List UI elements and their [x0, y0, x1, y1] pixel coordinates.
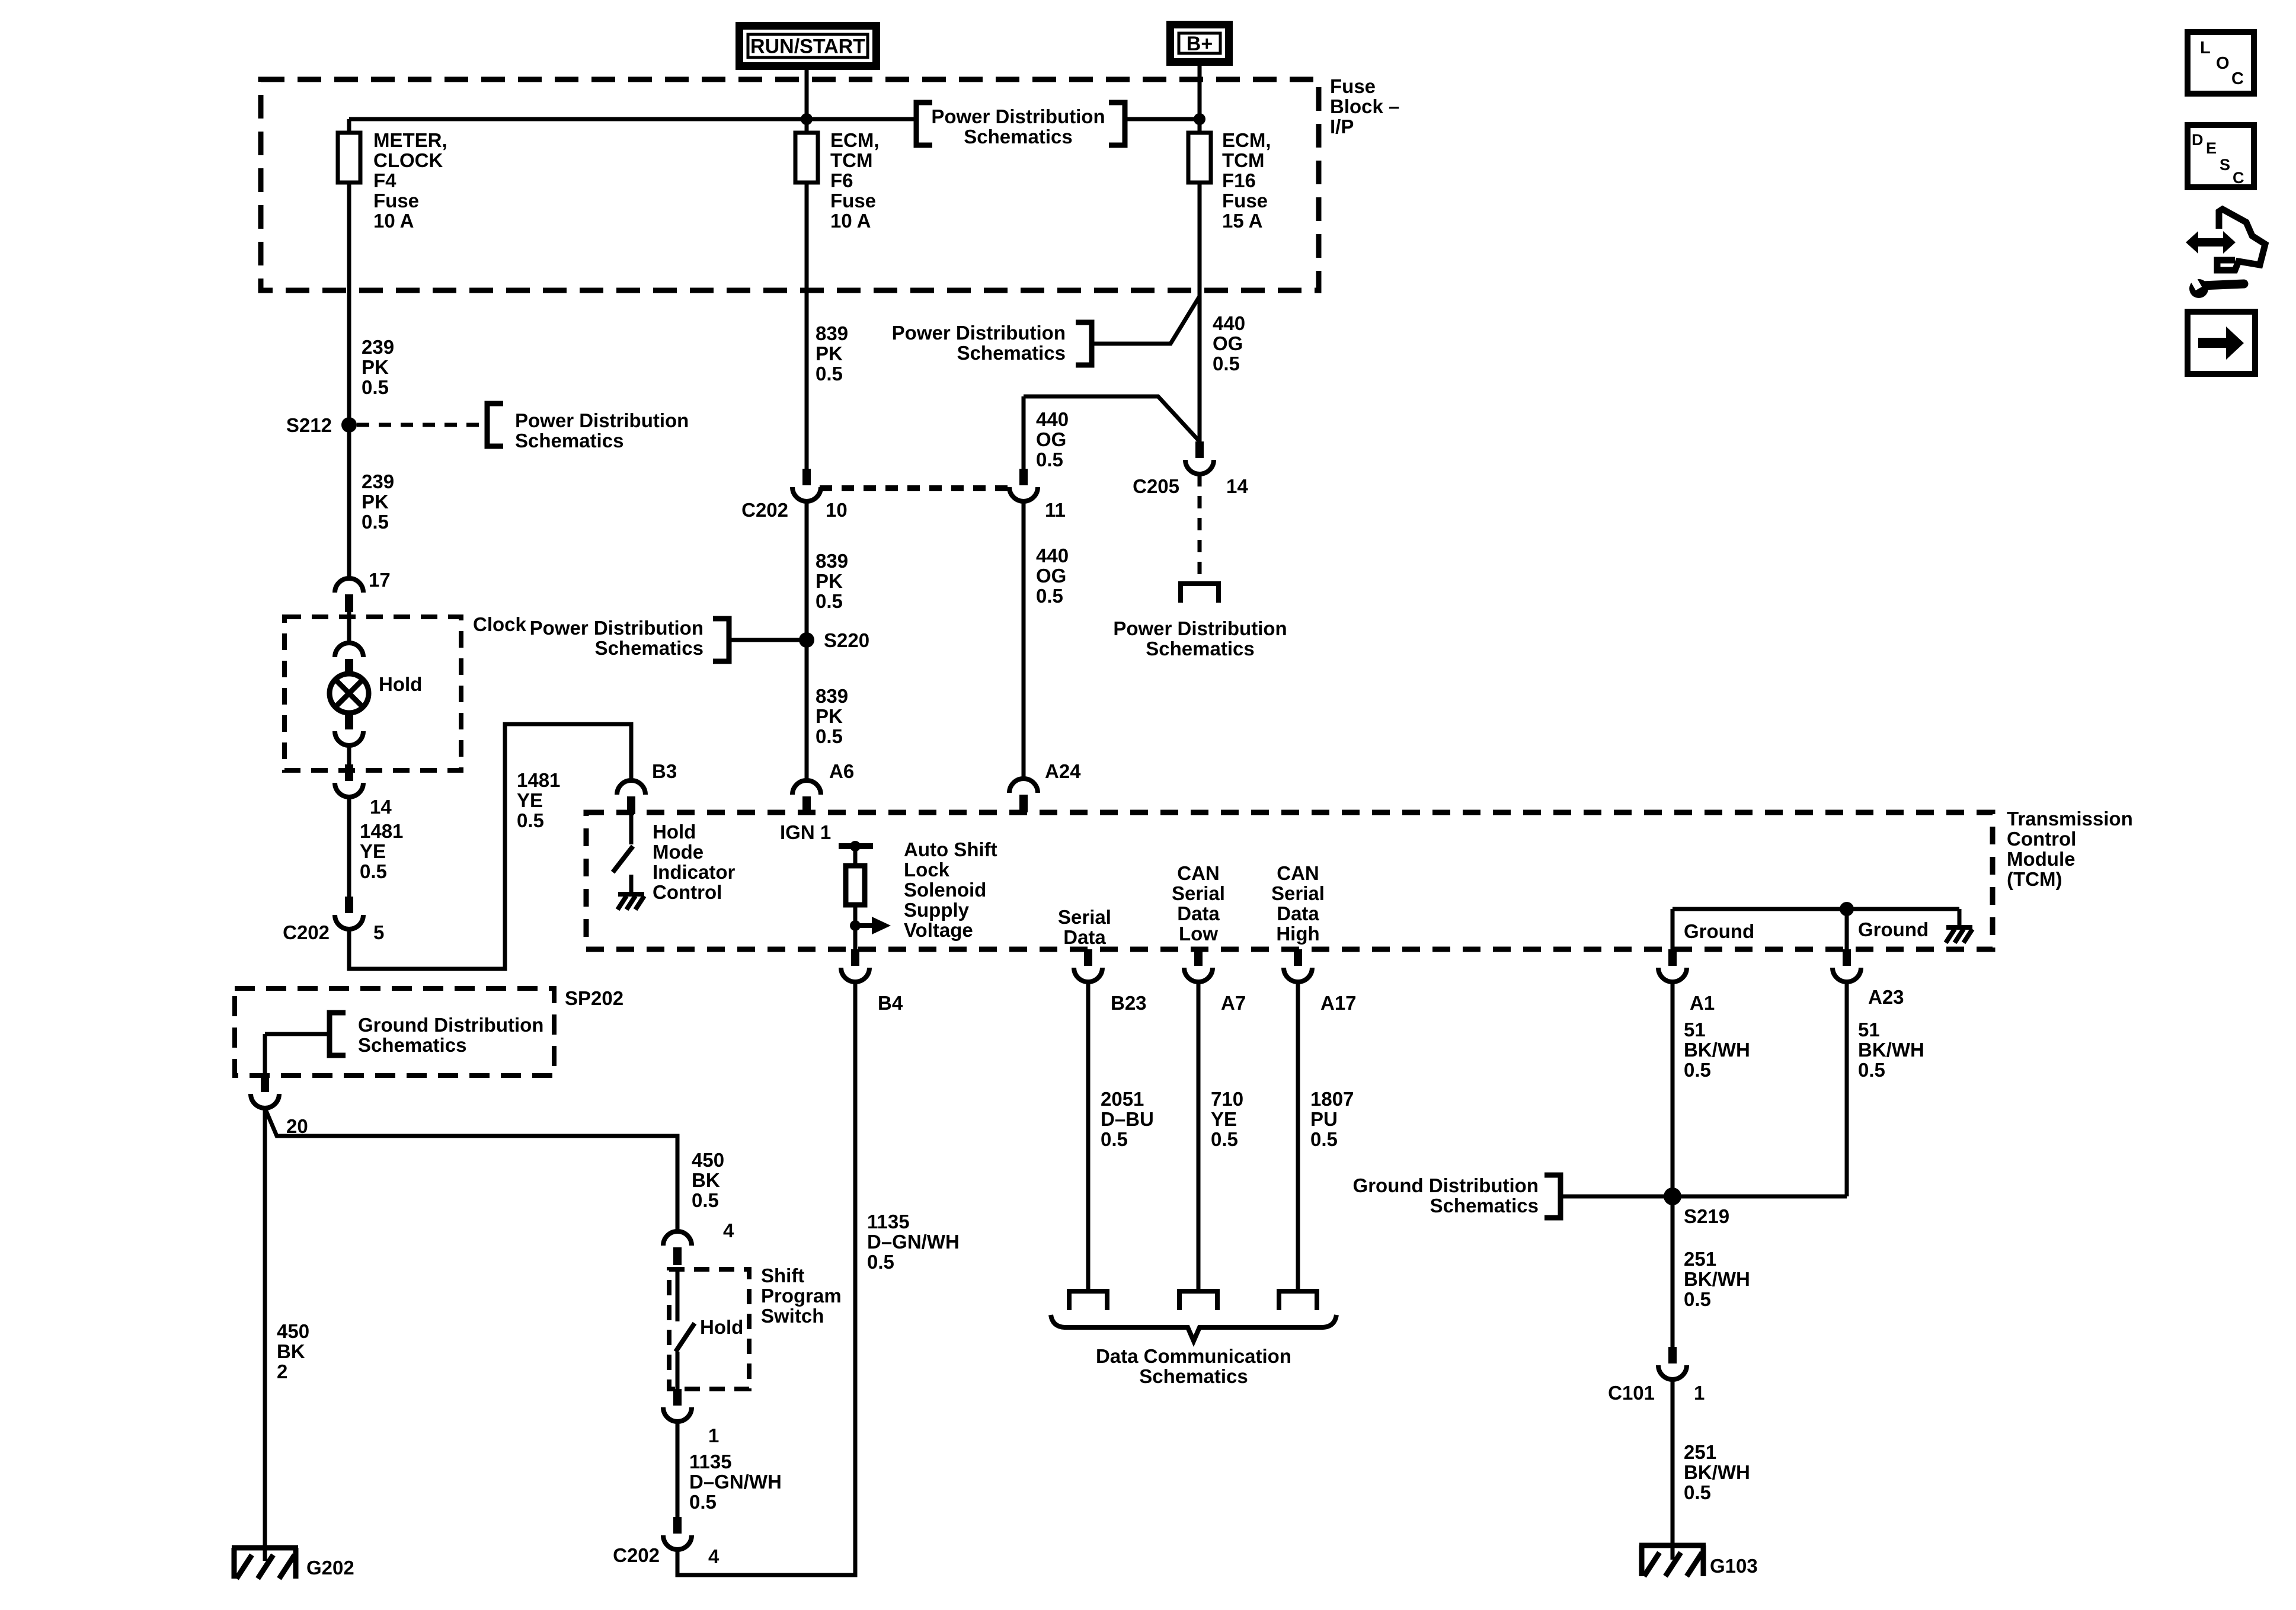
svg-text:0.5: 0.5	[517, 809, 544, 831]
connector pin 14 clock output	[335, 764, 363, 797]
wire 2051 D-BU B23 to data comm	[1086, 982, 1091, 1291]
svg-text:51: 51	[1684, 1019, 1706, 1041]
svg-text:(TCM): (TCM)	[2007, 868, 2062, 890]
wire switch to ground	[629, 875, 634, 892]
connector pin A24 TCM	[1009, 779, 1038, 812]
svg-text:Control: Control	[653, 881, 722, 903]
label pin B4	[878, 992, 903, 1014]
label C202 (pin 4)	[613, 1544, 660, 1566]
label Ground (A23)	[1858, 918, 1929, 940]
wire switch lower contact	[676, 1352, 680, 1389]
svg-text:1: 1	[708, 1425, 719, 1446]
label CAN Serial Data High	[1271, 862, 1325, 945]
label wire 239 PK 0.5 (lower)	[362, 470, 394, 533]
wire internal ground to A23	[1845, 909, 1849, 949]
label Power Distribution Schematics at S212	[515, 409, 689, 452]
svg-text:SP202: SP202	[565, 987, 623, 1009]
svg-text:Schematics: Schematics	[1430, 1195, 1539, 1217]
svg-text:Power Distribution: Power Distribution	[892, 322, 1066, 344]
svg-text:0.5: 0.5	[360, 860, 387, 882]
label pin 4 C202	[708, 1545, 720, 1567]
label pin A6	[829, 760, 854, 782]
svg-text:Solenoid: Solenoid	[904, 879, 986, 901]
svg-text:Mode: Mode	[653, 841, 703, 863]
svg-text:PU: PU	[1310, 1108, 1338, 1130]
svg-text:Fuse: Fuse	[1222, 190, 1268, 212]
connector pin B23 TCM	[1074, 949, 1102, 982]
svg-text:IGN 1: IGN 1	[780, 821, 831, 843]
svg-text:Auto Shift: Auto Shift	[904, 838, 997, 860]
bracket left of Power Distribution Schematics (top)	[916, 103, 932, 145]
svg-text:2: 2	[277, 1361, 287, 1382]
fuse F16 ECM TCM 15A	[1188, 133, 1211, 183]
wire 440 OG F16 down to C205	[1198, 183, 1202, 441]
svg-text:Schematics: Schematics	[1146, 638, 1254, 660]
label Power Distribution Schematics (top)	[931, 105, 1105, 148]
svg-text:A17: A17	[1320, 992, 1357, 1014]
ground internal TCM hold mode	[618, 894, 644, 910]
wire 440 OG down to C202-11	[1022, 396, 1026, 469]
node junction B+ bus	[1194, 113, 1205, 125]
svg-text:0.5: 0.5	[816, 725, 843, 747]
svg-text:14: 14	[1226, 475, 1248, 497]
label C202 (pin 5)	[283, 921, 330, 943]
label pin 17	[369, 569, 391, 591]
label pin 14	[370, 796, 392, 818]
svg-text:14: 14	[370, 796, 392, 818]
svg-text:Hold: Hold	[700, 1316, 743, 1338]
svg-text:0.5: 0.5	[1310, 1128, 1338, 1150]
svg-text:Data: Data	[1177, 902, 1220, 924]
label SP202	[565, 987, 623, 1009]
connector pin 1 shift program switch	[663, 1389, 692, 1422]
wire TCM internal ground bus	[1673, 907, 1959, 911]
wire 51 BK/WH A1 to S219	[1671, 982, 1675, 1347]
svg-text:2051: 2051	[1101, 1088, 1144, 1110]
wire resistor to B4	[853, 905, 858, 949]
svg-text:Power Distribution: Power Distribution	[515, 409, 689, 431]
label Data Communication Schematics	[1096, 1345, 1291, 1387]
label Fuse Block - I/P	[1330, 75, 1399, 137]
svg-text:4: 4	[723, 1219, 734, 1241]
label S219	[1684, 1205, 1729, 1227]
svg-text:0.5: 0.5	[1101, 1128, 1128, 1150]
svg-text:D–GN/WH: D–GN/WH	[867, 1231, 960, 1253]
receptacle B23 data communication	[1069, 1291, 1107, 1310]
svg-text:Indicator: Indicator	[653, 861, 736, 883]
wire RUN/START to fuse F6	[805, 70, 809, 133]
svg-text:OG: OG	[1036, 565, 1066, 587]
svg-text:A7: A7	[1221, 992, 1246, 1014]
label Shift Program Switch	[761, 1265, 842, 1327]
lamp terminal bottom (clock)	[335, 713, 363, 745]
svg-text:Schematics: Schematics	[358, 1034, 466, 1056]
svg-text:Ground: Ground	[1684, 920, 1754, 942]
svg-text:Schematics: Schematics	[964, 126, 1072, 148]
svg-text:PK: PK	[816, 343, 843, 364]
svg-text:CAN: CAN	[1277, 862, 1319, 884]
svg-text:0.5: 0.5	[362, 511, 389, 533]
wire bus F4 to bracket	[349, 117, 916, 121]
svg-text:1135: 1135	[867, 1211, 910, 1233]
svg-text:0.5: 0.5	[1858, 1059, 1885, 1081]
ground G202	[232, 1548, 298, 1579]
svg-text:15 A: 15 A	[1222, 210, 1262, 232]
ground G103	[1639, 1545, 1706, 1576]
bracket Power Distribution Schematics at S220	[713, 619, 729, 661]
wire IGN1 to resistor	[853, 846, 858, 866]
svg-text:440: 440	[1036, 545, 1069, 566]
power flag RUN/START	[740, 26, 877, 66]
connector pin 17 clock	[335, 578, 363, 612]
svg-text:11: 11	[1045, 499, 1066, 521]
wire 239 PK from F4 to connector 17	[347, 183, 351, 578]
icon wrench	[2188, 269, 2244, 298]
svg-text:YE: YE	[517, 789, 543, 811]
icon box DESC	[2188, 125, 2254, 187]
receptacle A17 data communication	[1279, 1291, 1317, 1310]
svg-text:0.5: 0.5	[1684, 1481, 1711, 1503]
wire B+ flag down to fuse F16	[1198, 66, 1202, 133]
svg-text:0.5: 0.5	[1211, 1128, 1238, 1150]
node S212 splice	[341, 417, 357, 433]
svg-text:ECM,: ECM,	[830, 129, 880, 151]
fuse F6 ECM TCM 10A	[795, 133, 818, 183]
wire IGN1 internal bar	[839, 843, 873, 849]
svg-text:High: High	[1276, 923, 1319, 945]
wire A23 branch to S219	[1673, 1195, 1847, 1199]
svg-text:OG: OG	[1213, 332, 1243, 354]
connector C101 pin 1	[1658, 1347, 1687, 1379]
wire bracket to S219	[1560, 1195, 1673, 1199]
label C205	[1133, 475, 1179, 497]
label C202 (pin 10)	[741, 499, 788, 521]
svg-text:Ground: Ground	[1858, 918, 1929, 940]
connector pin A1 TCM	[1658, 949, 1687, 982]
label wire 450 BK 2	[277, 1320, 309, 1382]
wire SP202 bracket	[265, 1032, 330, 1036]
svg-text:0.5: 0.5	[1213, 353, 1240, 375]
label pin 1 C101	[1694, 1382, 1705, 1404]
label Power Distribution Schematics at S220	[530, 617, 703, 659]
svg-text:B4: B4	[878, 992, 903, 1014]
svg-text:PK: PK	[362, 356, 389, 378]
wire bracket diagonal to 440 OG	[1092, 296, 1200, 344]
svg-text:Schematics: Schematics	[1139, 1365, 1248, 1387]
wire into clock lamp	[347, 612, 351, 643]
svg-text:G103: G103	[1710, 1555, 1758, 1577]
connector pin A6 TCM	[792, 780, 821, 814]
node internal ground junction	[1840, 902, 1854, 916]
label wire 51 BK/WH 0.5 (A23)	[1858, 1019, 1924, 1081]
svg-text:Data: Data	[1277, 902, 1319, 924]
svg-text:0.5: 0.5	[1036, 585, 1063, 607]
lamp terminal top (clock)	[335, 643, 363, 676]
label pin B23	[1111, 992, 1147, 1014]
svg-text:Lock: Lock	[904, 859, 950, 881]
svg-text:Fuse: Fuse	[830, 190, 876, 212]
label pin A17	[1320, 992, 1357, 1014]
svg-text:G202: G202	[306, 1557, 354, 1579]
svg-text:Transmission: Transmission	[2007, 808, 2133, 830]
label Power Distribution Schematics (below C205)	[1113, 617, 1287, 660]
label IGN 1	[780, 821, 831, 843]
wire 440 OG C202-11 to TCM A24	[1022, 501, 1026, 779]
SP202 dashed box	[235, 988, 554, 1076]
svg-text:710: 710	[1211, 1088, 1243, 1110]
svg-text:C202: C202	[283, 921, 330, 943]
svg-text:4: 4	[708, 1545, 720, 1567]
label pin A7	[1221, 992, 1246, 1014]
node junction bus/RUN-START	[801, 113, 813, 125]
svg-text:C202: C202	[613, 1544, 660, 1566]
label wire 440 OG 0.5 (branch upper)	[1036, 408, 1069, 470]
power flag B+	[1171, 25, 1229, 62]
svg-text:Low: Low	[1179, 923, 1218, 945]
wire 450 BK 0.5 branch to shift switch	[265, 1108, 677, 1231]
bracket Ground Distribution Schematics at S219	[1544, 1175, 1560, 1218]
wire 1135 D-GN/WH C202-4 to B4	[677, 982, 855, 1575]
node S220 splice	[799, 632, 814, 648]
label pin A24	[1045, 760, 1081, 782]
label fuse F16	[1222, 129, 1271, 232]
svg-text:Switch: Switch	[761, 1305, 824, 1327]
svg-text:D: D	[2192, 131, 2204, 149]
label Hold Mode Indicator Control	[653, 821, 736, 903]
icon box arrow right	[2188, 312, 2255, 374]
svg-text:A23: A23	[1868, 986, 1904, 1008]
dashed wire S212 to off-page bracket	[357, 423, 485, 427]
label wire 839 PK 0.5 (middle)	[816, 550, 848, 612]
icon double arrow	[2186, 231, 2236, 254]
connector C202 pin 4	[663, 1517, 692, 1550]
svg-text:C101: C101	[1608, 1382, 1655, 1404]
fuse F4 METER CLOCK 10A	[338, 133, 360, 183]
svg-text:YE: YE	[360, 840, 386, 862]
svg-text:0.5: 0.5	[1036, 449, 1063, 470]
svg-text:A1: A1	[1690, 992, 1715, 1014]
transmission control module dashed box	[586, 812, 1993, 949]
wire bus down to fuse F4	[347, 119, 351, 133]
svg-text:TCM: TCM	[830, 149, 872, 171]
bracket Ground Distribution Schematics at SP202	[330, 1013, 346, 1055]
svg-text:Serial: Serial	[1058, 906, 1111, 928]
svg-text:Serial: Serial	[1172, 882, 1225, 904]
svg-text:Fuse: Fuse	[373, 190, 419, 212]
svg-text:E: E	[2206, 139, 2217, 157]
wire 1481 YE C202-5 to TCM B3	[349, 724, 631, 969]
wire 51 BK/WH A23 down	[1845, 982, 1849, 1196]
svg-text:Serial: Serial	[1271, 882, 1325, 904]
label wire 450 BK 0.5	[692, 1149, 724, 1211]
svg-text:BK/WH: BK/WH	[1684, 1461, 1750, 1483]
svg-text:Fuse: Fuse	[1330, 75, 1376, 97]
wire 710 YE A7 to data comm	[1197, 982, 1201, 1291]
bracket Power Distribution Schematics at S212	[487, 404, 503, 446]
svg-text:Hold: Hold	[379, 673, 422, 695]
svg-text:Voltage: Voltage	[904, 919, 973, 941]
svg-text:BK/WH: BK/WH	[1684, 1268, 1750, 1290]
label Serial Data	[1058, 906, 1111, 948]
dashed wire C205 to power distribution	[1198, 474, 1202, 584]
connector pin 4 shift program switch	[663, 1231, 692, 1265]
label Hold lamp	[379, 673, 422, 695]
switch blade shift program Hold	[676, 1323, 695, 1352]
svg-text:0.5: 0.5	[689, 1491, 717, 1513]
label Ground (A1)	[1684, 920, 1754, 942]
svg-text:F16: F16	[1222, 169, 1256, 191]
svg-text:17: 17	[369, 569, 391, 591]
label CAN Serial Data Low	[1172, 862, 1225, 945]
svg-text:251: 251	[1684, 1441, 1716, 1463]
connector C205 pin 14	[1185, 441, 1214, 474]
icon box LOC	[2188, 32, 2254, 94]
wire bracket to S220	[729, 638, 807, 642]
svg-text:839: 839	[816, 322, 848, 344]
connector pin A23 TCM	[1833, 949, 1861, 982]
connector C202 pin 11	[1009, 469, 1038, 501]
svg-text:10 A: 10 A	[830, 210, 871, 232]
label pin 20	[286, 1115, 308, 1137]
label Ground Distribution Schematics at SP202	[358, 1014, 543, 1056]
label pin 5	[373, 921, 384, 943]
svg-text:A24: A24	[1045, 760, 1081, 782]
label wire 1135 D-GN/WH 0.5 (lower)	[689, 1451, 782, 1513]
svg-text:Power Distribution: Power Distribution	[931, 105, 1105, 127]
svg-text:C: C	[2233, 169, 2244, 187]
svg-text:0.5: 0.5	[1684, 1059, 1711, 1081]
resistor auto shift lock solenoid supply	[846, 866, 865, 905]
fuse block I/P dashed box	[261, 79, 1319, 290]
svg-text:0.5: 0.5	[362, 376, 389, 398]
svg-text:D–GN/WH: D–GN/WH	[689, 1471, 782, 1493]
svg-text:Data: Data	[1063, 926, 1106, 948]
svg-text:YE: YE	[1211, 1108, 1237, 1130]
node solenoid supply tap	[850, 920, 861, 931]
svg-text:C: C	[2231, 69, 2244, 88]
svg-text:Module: Module	[2007, 848, 2075, 870]
svg-text:L: L	[2200, 39, 2211, 57]
svg-text:1481: 1481	[360, 820, 403, 842]
node IGN1 tap	[850, 841, 861, 852]
svg-text:PK: PK	[816, 705, 843, 727]
svg-text:BK: BK	[277, 1340, 305, 1362]
svg-text:Shift: Shift	[761, 1265, 804, 1286]
svg-text:1807: 1807	[1310, 1088, 1354, 1110]
svg-text:Power Distribution: Power Distribution	[1113, 617, 1287, 639]
label pin B3	[652, 760, 677, 782]
svg-text:51: 51	[1858, 1019, 1880, 1041]
wire 1807 PU A17 to data comm	[1296, 982, 1300, 1291]
svg-text:839: 839	[816, 550, 848, 572]
label wire 1481 YE 0.5 (to B3)	[517, 769, 560, 831]
label Ground Distribution Schematics at S219	[1353, 1174, 1539, 1217]
svg-text:5: 5	[373, 921, 384, 943]
svg-text:C205: C205	[1133, 475, 1179, 497]
label wire 239 PK 0.5 (upper)	[362, 336, 394, 398]
wire internal ground stub	[1958, 909, 1962, 926]
label pin 4	[723, 1219, 734, 1241]
label G103	[1710, 1555, 1758, 1577]
connector pin A7 TCM	[1184, 949, 1213, 982]
label wire 1135 D-GN/WH 0.5 (B4)	[867, 1211, 960, 1273]
label wire 1807 PU 0.5	[1310, 1088, 1354, 1150]
svg-text:450: 450	[277, 1320, 309, 1342]
label C101	[1608, 1382, 1655, 1404]
svg-text:450: 450	[692, 1149, 724, 1171]
svg-text:S: S	[2220, 156, 2230, 174]
label Clock	[473, 613, 527, 635]
svg-text:PK: PK	[816, 570, 843, 592]
switch hold mode indicator control	[613, 846, 633, 872]
svg-text:BK/WH: BK/WH	[1858, 1039, 1924, 1061]
svg-text:Ground Distribution: Ground Distribution	[1353, 1174, 1539, 1196]
svg-text:S220: S220	[824, 629, 869, 651]
svg-text:0.5: 0.5	[1684, 1288, 1711, 1310]
svg-text:C202: C202	[741, 499, 788, 521]
clock dashed box	[284, 617, 461, 770]
svg-text:Hold: Hold	[653, 821, 696, 843]
wire internal ground to A1	[1671, 909, 1675, 949]
connector pin B3 TCM	[617, 780, 645, 814]
arrow solenoid supply voltage	[855, 917, 891, 934]
svg-text:1481: 1481	[517, 769, 560, 791]
wire 839 PK F6 to C202-10	[805, 183, 809, 469]
svg-text:B23: B23	[1111, 992, 1147, 1014]
svg-text:Schematics: Schematics	[515, 430, 623, 452]
svg-text:Schematics: Schematics	[957, 342, 1066, 364]
label Transmission Control Module (TCM)	[2007, 808, 2133, 890]
svg-text:D–BU: D–BU	[1101, 1108, 1154, 1130]
receptacle A7 data communication	[1179, 1291, 1217, 1310]
svg-text:239: 239	[362, 470, 394, 492]
svg-text:B3: B3	[652, 760, 677, 782]
label G202	[306, 1557, 354, 1579]
svg-text:251: 251	[1684, 1248, 1716, 1270]
wire 440 OG branch jog	[1024, 396, 1200, 441]
dashed connector link C202 10-11	[820, 485, 1011, 491]
svg-text:CLOCK: CLOCK	[373, 149, 443, 171]
wire 251 BK/WH C101 to G103	[1671, 1379, 1675, 1560]
label wire 51 BK/WH 0.5 (A1)	[1684, 1019, 1750, 1081]
bracket Power Distribution Schematics at 440 OG	[1076, 322, 1092, 365]
brace data communication schematics	[1051, 1315, 1336, 1341]
svg-text:Power Distribution: Power Distribution	[530, 617, 703, 639]
svg-text:I/P: I/P	[1330, 116, 1354, 137]
icon connector outline	[2217, 209, 2265, 270]
label pin 1	[708, 1425, 719, 1446]
label wire 2051 D-BU 0.5	[1101, 1088, 1154, 1150]
svg-text:RUN/START: RUN/START	[750, 36, 865, 58]
svg-text:ECM,: ECM,	[1222, 129, 1271, 151]
label wire 440 OG 0.5 (at F16)	[1213, 312, 1245, 375]
connector C202 pin 10	[792, 469, 821, 501]
label fuse F6	[830, 129, 880, 232]
label pin A1	[1690, 992, 1715, 1014]
svg-text:20: 20	[286, 1115, 308, 1137]
label fuse F4	[373, 129, 447, 232]
bracket right of Power Distribution Schematics (top)	[1109, 103, 1125, 145]
svg-text:Schematics: Schematics	[595, 637, 703, 659]
svg-text:Block –: Block –	[1330, 95, 1399, 117]
label S212	[286, 414, 332, 436]
label wire 839 PK 0.5 (upper)	[816, 322, 848, 385]
svg-text:Data Communication: Data Communication	[1096, 1345, 1291, 1367]
label S220	[824, 629, 869, 651]
svg-text:PK: PK	[362, 491, 389, 513]
svg-text:10: 10	[826, 499, 848, 521]
svg-text:839: 839	[816, 685, 848, 707]
